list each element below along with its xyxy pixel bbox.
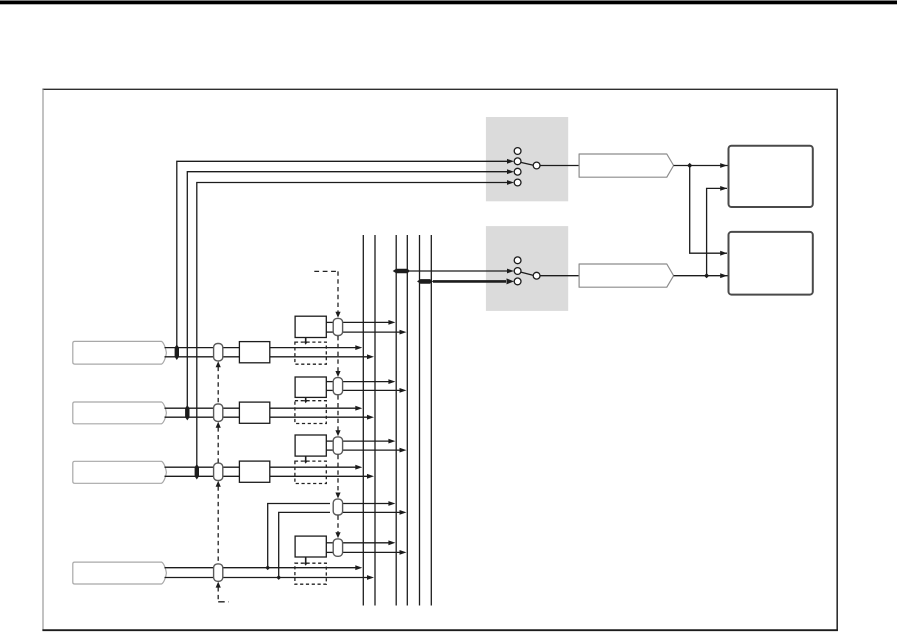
wire grp3 capsule to bus L	[343, 440, 389, 442]
monitor capsule grp4	[333, 499, 342, 515]
wire row3 to selector1 input	[197, 183, 508, 472]
wire row5 L up to monitor capsule	[268, 504, 330, 568]
wire junctionA down to box2	[690, 166, 727, 254]
thick wire bus jumper to selector2 input	[433, 280, 506, 283]
processing rect row2	[239, 402, 269, 423]
wire grp2 rect to capsule L	[326, 381, 333, 383]
selector SW1 contacts	[514, 148, 521, 155]
dashed function box row2	[295, 401, 326, 424]
monitor capsule grp5	[333, 539, 342, 556]
selector block 2 background	[486, 226, 568, 311]
tap cigar row1	[175, 344, 179, 360]
control tick grp2	[305, 397, 307, 401]
selector SW2 arm	[521, 272, 534, 275]
dashed function box row3	[295, 461, 326, 483]
bus tap cigar 2	[417, 279, 433, 284]
monitor capsule grp1	[333, 318, 342, 335]
level capsule row3	[214, 463, 223, 480]
wire grp1 capsule to bus R	[343, 331, 400, 333]
junction A	[687, 163, 692, 168]
top black bar	[0, 1, 897, 5]
monitor capsule grp3	[333, 437, 342, 454]
dashed gang link middle chain start	[314, 270, 338, 272]
wire row2 L channel	[165, 407, 356, 409]
dashed gang link left chain bottom elbow	[218, 601, 228, 603]
control tick grp5	[305, 557, 307, 564]
speaker box 1	[729, 146, 813, 207]
wire grp2 capsule to bus R	[343, 389, 400, 391]
wire grp5 rect to capsule L	[326, 542, 333, 544]
level capsule row2	[214, 404, 223, 421]
amp block 1	[579, 154, 674, 177]
junction row5 L	[265, 565, 270, 570]
dashed gang link left chain	[217, 367, 219, 404]
buffer rect grp1	[295, 316, 326, 337]
tap cigar row3	[195, 464, 199, 480]
wire grp3 capsule to bus R	[343, 449, 400, 451]
bus tap cigar 1	[393, 269, 411, 274]
processing rect row1	[239, 342, 269, 363]
wire grp1 rect to capsule L	[326, 321, 333, 323]
amp block 2	[579, 264, 674, 287]
dashed gang link middle chain	[337, 271, 339, 312]
wire grp5 capsule to bus L	[343, 542, 389, 544]
wire grp4 capsule to bus L	[343, 503, 389, 505]
source block row2	[73, 402, 167, 424]
wire selector2 to amp2	[540, 275, 579, 277]
wire row3 R channel	[165, 475, 368, 477]
selector block 1 background	[486, 117, 568, 201]
processing rect row3	[239, 461, 269, 482]
wire grp1 capsule to bus L	[343, 321, 389, 323]
bus rails	[362, 235, 364, 606]
wire row5 R channel	[165, 577, 368, 579]
selector SW2 contacts	[514, 257, 521, 264]
wire grp2 rect to capsule R	[326, 389, 333, 391]
wire row3 L channel	[165, 466, 356, 468]
wire amp1 to box1	[674, 165, 728, 167]
control tick grp3	[305, 456, 307, 462]
wire grp4 capsule to bus R	[343, 511, 400, 513]
wire grp5 rect to capsule R	[326, 551, 333, 553]
control tick grp1	[305, 338, 307, 344]
buffer rect grp5	[295, 536, 326, 557]
tap cigar row2	[185, 405, 189, 420]
wire grp2 capsule to bus L	[343, 381, 389, 383]
monitor capsule grp2	[333, 378, 342, 395]
selector SW1 arm	[521, 162, 534, 165]
wire row5 L channel	[165, 567, 356, 569]
level capsule row1	[214, 344, 223, 361]
speaker box 2	[729, 232, 813, 295]
buffer rect grp2	[295, 377, 326, 397]
outer frame	[42, 88, 838, 90]
source block row5	[73, 562, 167, 584]
wire grp1 rect to capsule R	[326, 331, 333, 333]
source block row3	[73, 461, 167, 483]
wire junctionB up to box1	[707, 188, 727, 275]
wire row1 L channel	[165, 347, 356, 349]
junction B	[704, 273, 709, 278]
wire row2 to selector1 input	[187, 172, 507, 413]
wire row1 to selector1 input	[177, 161, 508, 352]
dashed function box row1	[295, 342, 326, 364]
wire selector1 to amp1	[540, 165, 579, 167]
wire row1 R channel	[165, 356, 368, 358]
wire bus jumper to selector2 input	[410, 270, 508, 272]
junction row5 R	[276, 575, 281, 580]
wire row5 R up to monitor capsule	[279, 512, 330, 577]
level capsule row5	[214, 564, 223, 581]
wire amp2 to box2	[674, 275, 728, 277]
wire grp5 capsule to bus R	[343, 551, 400, 553]
buffer rect grp3	[295, 435, 326, 456]
source block row1	[73, 341, 167, 364]
wire grp3 rect to capsule L	[326, 440, 333, 442]
wire grp3 rect to capsule R	[326, 449, 333, 451]
dashed function box row5	[295, 563, 326, 584]
wire row2 R channel	[165, 416, 368, 418]
